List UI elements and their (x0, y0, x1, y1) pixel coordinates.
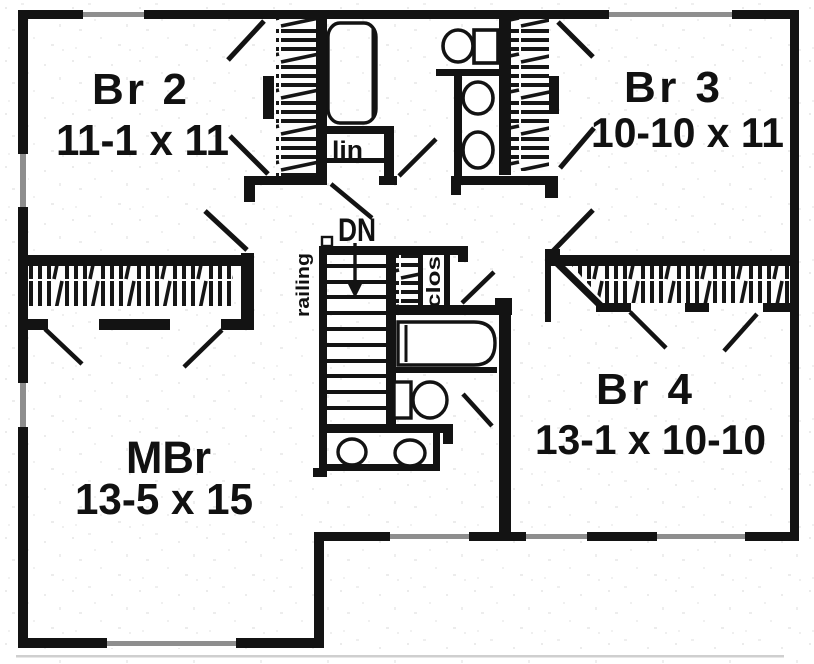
door leaf: top bath left compartment (331, 184, 372, 218)
window: bottom wall hall (526, 532, 587, 541)
wall foot: lin right (379, 176, 397, 185)
railing foot (313, 468, 327, 477)
wall: Br4 closet bottom dash (685, 303, 709, 312)
tub platform line (393, 367, 497, 373)
svg-text:clos: clos (424, 256, 445, 308)
sink: top bathroom 2 (463, 132, 493, 168)
stair treads (327, 266, 386, 408)
wall cap at bath door (443, 424, 453, 444)
wall: hall closet right (444, 253, 450, 311)
wall: Br4 closet bottom seg2 (763, 303, 792, 312)
wall: Br4 closet bottom seg1 (596, 303, 631, 312)
door leaf: Br4 closet right (724, 314, 757, 351)
hatch: hall closet 1 (396, 255, 418, 305)
vanity edge: top bathroom (454, 76, 462, 177)
svg-text:Br 3: Br 3 (624, 63, 720, 112)
toilet: top bathroom (443, 30, 498, 63)
wall: outer left (18, 10, 28, 648)
jamb: Br3 closet front (549, 76, 559, 114)
wall: stairs right (386, 255, 396, 432)
window: top wall Br2 (83, 10, 144, 19)
wall: Br4 closet diagonal (556, 262, 603, 308)
wall: MBr closet bottom corner (221, 319, 254, 330)
wall cap right (545, 176, 558, 198)
sink: top bathroom 1 (463, 82, 493, 114)
wall: MBr closet right end (241, 253, 254, 330)
vanity: below stairs bottom (322, 464, 440, 471)
door leaf: center bath (462, 272, 494, 303)
wall: MBr closet top (28, 255, 254, 266)
wall: lin closet bottom line (317, 158, 384, 163)
wall: MBr closet bottom seg1 (21, 319, 48, 330)
hatch: Br4 closet (572, 266, 790, 303)
door leaf: Br3 closet (560, 128, 594, 168)
wall: vanity top (below stairs) (319, 424, 453, 433)
door leaf: MBr entry (205, 211, 247, 250)
hatch: Br2 closet (276, 19, 316, 176)
wall cap left (451, 176, 461, 195)
wall cap: clos right top (458, 246, 468, 262)
door leaf: Br2 closet (230, 136, 268, 174)
window: left wall Br2 (18, 154, 28, 207)
Br4 closet corner block (545, 249, 560, 266)
svg-text:13-5 x 15: 13-5 x 15 (75, 475, 253, 524)
window: left wall MBr (18, 383, 28, 427)
shelf line under toilet (436, 69, 499, 76)
sink: center 2 (395, 440, 425, 466)
sink: center 1 (338, 439, 366, 465)
svg-text:railing: railing (293, 253, 313, 317)
wall: lin closet top (316, 126, 394, 134)
divider: hall closets (418, 255, 423, 311)
svg-text:13-1 x 10-10: 13-1 x 10-10 (535, 416, 766, 463)
arrow: stairs down (353, 243, 356, 284)
wall: clos bottom / bath niche top (386, 305, 512, 315)
scan artifact line below plan (16, 655, 784, 658)
wall: outer bottom right (314, 532, 799, 541)
window: bottom wall center (390, 532, 469, 541)
newel square at stairs (322, 237, 332, 246)
door leaf: center bath entry (463, 394, 492, 426)
wall: outer top (18, 10, 799, 19)
tub: top bathroom (328, 23, 376, 123)
railing: stairs left (319, 246, 327, 470)
wall: Br2 closet / tub partition (316, 19, 327, 180)
door leaf: Br3 entry (558, 22, 593, 57)
tub: center bathroom (398, 322, 495, 365)
svg-text:DN: DN (338, 212, 376, 248)
door leaf: Br4 closet left (630, 312, 666, 348)
wall: Br4 alcove (545, 266, 551, 322)
vanity: below stairs right edge (433, 433, 440, 470)
wall: bath / Br3 closet partition (499, 10, 511, 175)
wall: MBr closet bottom seg2 (99, 319, 170, 330)
wall: Br4 closet top (558, 255, 792, 266)
door leaf: top bath right compartment (399, 139, 436, 176)
hatch: Br3 closet (511, 19, 549, 171)
svg-text:11-1 x 11: 11-1 x 11 (56, 116, 229, 165)
window: bottom wall MBr (107, 638, 236, 648)
door leaf: MBr closet right (184, 330, 222, 367)
wall: outer bottom left (MBr) (18, 638, 324, 648)
wall cap: bath top right (495, 298, 512, 315)
jamb: Br2 closet front (263, 76, 274, 119)
svg-text:Br 4: Br 4 (596, 365, 693, 414)
toilet: center bathroom (394, 382, 447, 418)
svg-text:Br 2: Br 2 (92, 65, 187, 114)
window: top wall Br3 (609, 10, 732, 19)
door leaf: Br4 entry (553, 210, 593, 251)
wall: Br2 bottom / hall (244, 176, 327, 185)
wall: lin closet right (384, 126, 394, 177)
window: bottom wall Br4 (657, 532, 745, 541)
door leaf: Br2 entry (228, 21, 264, 60)
wall: step between MBr and Br4 bottom (314, 533, 324, 648)
wall: outer right (790, 10, 799, 541)
door leaf: MBr closet left (45, 329, 82, 364)
wall: vanity bottom (hall) (451, 176, 558, 185)
hatch: MBr closet (28, 266, 233, 306)
wall cap: hall left (244, 176, 255, 202)
svg-text:10-10 x 11: 10-10 x 11 (591, 109, 784, 156)
svg-text:lin: lin (332, 137, 363, 164)
wall: bath right / Br4 left (499, 305, 511, 533)
wall: stairs top (321, 246, 468, 255)
